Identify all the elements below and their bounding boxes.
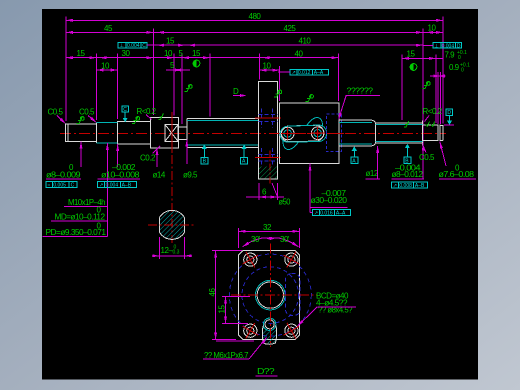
tube circle right inner	[314, 130, 321, 137]
datum B under screw	[201, 147, 208, 164]
svg-text:0.004: 0.004	[127, 43, 140, 49]
extension line x210	[209, 54, 211, 117]
svg-text:0.005: 0.005	[53, 183, 66, 189]
datum C on thread	[122, 106, 128, 118]
leader R02	[146, 115, 152, 120]
extension line x443 right end	[442, 17, 444, 124]
dim row 15/30/10/5/15/40	[66, 57, 339, 59]
dim line 5 small	[166, 69, 190, 71]
svg-text:0: 0	[461, 67, 464, 73]
dim 32 top	[238, 228, 240, 248]
svg-text:0.008: 0.008	[399, 183, 412, 189]
svg-text:15: 15	[166, 37, 175, 46]
bolt hole TR	[284, 252, 300, 268]
svg-text:ø14: ø14	[153, 170, 166, 179]
M6 tapped hole	[263, 318, 275, 330]
dim 12 across flats	[158, 237, 160, 259]
flange M6 red centerline	[269, 151, 271, 186]
return tube inner capsule white	[281, 125, 324, 142]
svg-text:15: 15	[77, 49, 86, 58]
svg-text:○: ○	[47, 183, 50, 189]
nut body hidden circle dashed	[242, 267, 299, 324]
leader phi50	[272, 183, 278, 198]
svg-text:↗: ↗	[99, 183, 103, 189]
svg-text:??????: ??????	[347, 87, 374, 96]
svg-text:R<0.2: R<0.2	[137, 107, 157, 116]
flange bolt hole centerlines red	[255, 117, 281, 119]
svg-text:0.004: 0.004	[442, 43, 455, 49]
datum A under screw	[241, 147, 248, 164]
svg-text:D: D	[447, 110, 451, 116]
tube circle right outer	[311, 127, 324, 140]
flange section hatch	[259, 167, 277, 179]
svg-text:10: 10	[263, 62, 272, 71]
svg-text:0.004: 0.004	[106, 183, 119, 189]
svg-text:A–B: A–B	[122, 183, 132, 189]
svg-text:C0.5: C0.5	[79, 108, 95, 117]
dim line 425	[154, 31, 423, 33]
svg-text:D??: D??	[257, 367, 275, 376]
return tube capsule cyan	[280, 125, 327, 142]
leader phi8-0.012	[422, 143, 424, 179]
nut body	[280, 103, 340, 163]
gdt box circ 0.005 C	[46, 182, 77, 189]
extension line x65.8 left end	[65, 17, 67, 122]
gdt box perp 0.004 C (left)	[118, 42, 153, 49]
svg-text:C0.5: C0.5	[419, 153, 435, 162]
svg-text:MD=ø10–0.112: MD=ø10–0.112	[55, 213, 106, 222]
gdt box runout 0.004 A-B	[98, 182, 137, 189]
svg-text:0.016: 0.016	[320, 211, 333, 217]
svg-text:A–B: A–B	[415, 183, 425, 189]
svg-text:C0.5: C0.5	[48, 108, 64, 117]
halfmoon symbol right	[410, 64, 417, 71]
datum A right	[351, 150, 358, 164]
leader arrow phi8	[80, 142, 82, 168]
leader C0.5 left	[57, 116, 65, 124]
arrowheads top dims	[66, 19, 73, 22]
svg-text:D: D	[457, 43, 461, 49]
gdt box 0.012 A-A (above nut)	[278, 69, 328, 76]
dim line 45	[66, 31, 154, 33]
svg-text:30': 30'	[251, 235, 261, 244]
leader phi7.6 groove diagonal	[440, 142, 446, 167]
M6 partial hatch	[262, 325, 276, 344]
black drawing canvas	[42, 9, 478, 380]
svg-text:425: 425	[284, 24, 297, 33]
shaft collar phi14	[150, 117, 178, 148]
TOPDIMS	[66, 17, 446, 151]
svg-text:C: C	[123, 107, 127, 113]
svg-text:15: 15	[218, 305, 227, 314]
svg-text:30: 30	[122, 49, 131, 58]
extension line x174	[173, 54, 175, 116]
roughness marks near R3	[404, 121, 435, 127]
extension line x436	[435, 55, 437, 124]
svg-text:15: 15	[192, 49, 201, 58]
return tube hidden dashed rounded	[286, 274, 301, 316]
svg-text:PD=ø9.350–0.071: PD=ø9.350–0.071	[46, 228, 107, 237]
leader phi30 nut bottom	[309, 164, 311, 208]
dim line 410 row	[154, 44, 423, 46]
svg-text:10: 10	[164, 49, 173, 58]
tube circle left red cross	[281, 127, 295, 139]
datum B right	[404, 148, 411, 164]
dim 15 left	[222, 296, 250, 298]
screw root lines cyan	[187, 120, 259, 122]
thread crest lines cyan M10	[96, 122, 117, 124]
svg-text:40: 40	[295, 50, 304, 59]
bolt hole BL	[243, 323, 259, 339]
dim 6 flange thickness	[246, 196, 259, 198]
leader C0.2	[153, 146, 161, 154]
svg-text:ø8–0.012: ø8–0.012	[392, 170, 424, 179]
nut red centerline	[276, 132, 344, 134]
roughness right of nut	[423, 82, 431, 89]
bolt hole BR	[284, 323, 300, 339]
hidden key rect blue dashed	[327, 114, 342, 152]
shaft segment phi8 left	[66, 124, 97, 142]
return tube wing top right	[307, 117, 322, 126]
svg-text:↗: ↗	[393, 183, 397, 189]
dim line 480	[66, 19, 443, 21]
screw shaft outline	[187, 118, 259, 120]
svg-text:10: 10	[101, 62, 110, 71]
roughness symbols on left shaft	[77, 85, 193, 124]
svg-text:ø7.6–0.08: ø7.6–0.08	[439, 170, 475, 179]
dim line 10 (thread)	[96, 69, 117, 71]
svg-text:A–A: A–A	[336, 211, 346, 217]
end view red centerlines	[269, 244, 271, 348]
right shaft segment R2 phi8	[376, 121, 423, 146]
collar flat X-box	[165, 125, 178, 142]
svg-text:ø8–0.009: ø8–0.009	[46, 170, 81, 179]
extension line x259.4 flange left	[258, 54, 260, 80]
extension line x423 long	[422, 29, 424, 151]
svg-text:A–A: A–A	[314, 70, 324, 76]
leader arrow phi9.5	[186, 140, 188, 165]
tube circle right red cross	[311, 127, 325, 139]
dim line 10 (flange)	[259, 69, 279, 71]
svg-text:C: C	[142, 43, 146, 49]
M6 section break line	[262, 326, 276, 345]
svg-text:0.3: 0.3	[173, 250, 180, 256]
flange hidden bolt hole top (blue dashed)	[259, 109, 278, 167]
flange plate	[259, 82, 278, 180]
svg-text:12–: 12–	[161, 246, 174, 255]
return tube wing bottom left	[283, 141, 298, 150]
extension line x437.8 groove	[437, 72, 439, 124]
roughness on flange top	[274, 90, 282, 97]
tube circle left outer	[281, 127, 294, 140]
halfmoon symbol left	[193, 60, 200, 67]
groove 0.9	[437, 125, 439, 142]
svg-text:7.9: 7.9	[445, 51, 456, 60]
leader arrow phi10	[117, 144, 119, 167]
svg-text:46: 46	[208, 288, 217, 297]
shaft segment phi10	[118, 122, 151, 145]
svg-text:C0.2: C0.2	[140, 154, 156, 163]
leader ladder M10 text	[106, 143, 108, 237]
bore thread circle cyan	[255, 280, 285, 310]
svg-text:30': 30'	[280, 235, 290, 244]
svg-text:⊥: ⊥	[120, 43, 124, 49]
extension line x402	[401, 55, 403, 121]
gdt box runout 0.008 A-B	[391, 182, 427, 189]
shaft segment M10 thread	[95, 123, 97, 144]
svg-text:10: 10	[428, 24, 437, 33]
right shaft segment R3 phi7.6	[423, 125, 443, 142]
svg-text:410: 410	[299, 36, 312, 45]
section red crosshair	[148, 224, 196, 226]
svg-text:ø10–0.008: ø10–0.008	[101, 170, 140, 179]
bore circle white	[257, 282, 283, 308]
svg-text:R<0.2: R<0.2	[423, 107, 443, 116]
extension line x279.6 nut left	[279, 66, 281, 101]
svg-text:0.9: 0.9	[449, 63, 460, 72]
leader C0.5 mid	[88, 116, 96, 123]
relief groove phi9.5	[178, 127, 187, 140]
svg-text:32: 32	[263, 223, 272, 232]
svg-text:45: 45	[104, 24, 113, 33]
dim 46 bottom ext tick	[216, 340, 254, 342]
flange outline chamfered	[239, 251, 300, 340]
dim 46 left	[212, 250, 242, 252]
gdt box perp 0.004 D (right)	[423, 43, 462, 50]
extension line x153.5	[153, 29, 155, 116]
extension line x117.7	[117, 54, 119, 120]
main red centerline	[60, 132, 446, 134]
extension line x338.5 nut right	[338, 54, 340, 102]
red section line through collar	[171, 112, 173, 153]
dim line 0.9 groove	[430, 75, 446, 77]
leader phi12	[377, 146, 379, 179]
svg-text:0.012: 0.012	[298, 70, 311, 76]
right shaft segment R1	[339, 120, 376, 146]
red centerline vertical to section	[171, 155, 173, 243]
svg-text:↗: ↗	[314, 211, 318, 217]
dim line 15 right	[402, 57, 443, 59]
svg-text:ø50: ø50	[279, 198, 291, 207]
svg-text:C: C	[71, 183, 75, 189]
R2 cyan lines	[376, 124, 423, 126]
leader arrow phi14	[156, 148, 158, 167]
svg-text:ø9.5: ø9.5	[183, 170, 198, 179]
extension line x440.4 groove	[439, 72, 441, 124]
svg-text:ø30–0.020: ø30–0.020	[311, 196, 348, 205]
extension line x182	[181, 54, 183, 125]
svg-text:0: 0	[458, 55, 461, 61]
svg-text:15: 15	[407, 50, 416, 59]
datum D right end	[446, 109, 453, 121]
gdt box 0.016 A-A	[310, 208, 350, 217]
svg-text:D: D	[233, 87, 239, 96]
R1 cyan lines	[339, 122, 372, 124]
svg-text:ø12: ø12	[366, 169, 379, 178]
end segment	[440, 125, 443, 127]
roughness on nut top	[306, 95, 314, 102]
tube circle left inner	[284, 130, 291, 137]
angle dim 30' 30'	[243, 238, 271, 247]
section flats	[158, 218, 160, 233]
dim line 10 (top right)	[423, 31, 443, 33]
bcd circle dashed	[229, 254, 311, 336]
svg-text:480: 480	[249, 12, 262, 21]
svg-text:↗: ↗	[292, 70, 296, 76]
bolt hole TL	[243, 252, 259, 268]
leader BCD	[317, 306, 356, 308]
svg-text:⊥: ⊥	[434, 43, 438, 49]
extension line x96.4	[95, 54, 97, 121]
